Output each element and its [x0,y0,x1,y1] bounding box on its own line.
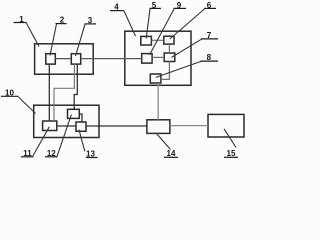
wire block6-block7 [168,44,170,53]
block 3 [71,54,80,64]
leader 10 [18,97,36,114]
block 11 [43,121,57,131]
leader 15 [224,129,236,148]
wire block9-block7 [152,56,164,58]
leader 8 [156,61,201,77]
block 9 [142,54,152,64]
wire block11-block13 [57,125,76,127]
leader 11 [33,127,50,156]
leader 3 [76,24,86,56]
leader 13 [79,130,85,152]
wire block13-block14 (through edge of block 10) [86,125,147,127]
leader 7 [172,39,202,57]
wire block3-block9 (through edges of blocks 1 and 4) [81,58,142,60]
block 6 [164,36,174,44]
wire block7-block8 (L shape) [161,62,170,80]
leader 14 [156,133,171,150]
leader 1 [26,23,39,47]
block 14 [147,120,170,134]
block 1 (outer box top-left) [35,44,94,74]
block 10 (outer box bottom-left) [34,105,99,137]
svg-text:15: 15 [227,149,236,158]
wire block3-block12 (small jog) [74,64,77,109]
wire block8-block14 [157,83,159,120]
block 12 [68,109,80,118]
svg-text:14: 14 [167,149,176,158]
block 7 [164,53,175,62]
wire block3-block11 (jog left) [54,64,74,121]
block 2 [46,54,56,64]
wire block14-block15 [170,125,208,127]
wire block2-block3 [55,58,71,60]
block 4 (outer box top-right) [125,31,191,85]
block 5 [141,36,152,45]
wire block2-block11 [48,64,50,121]
leader 2 [50,24,57,56]
block 8 [150,74,161,83]
wire block12-block13 (step) [79,114,82,122]
leader 12 [57,115,71,157]
leader 9 [150,9,175,55]
block 15 [208,114,244,137]
leader 4 [124,11,136,36]
wire block5-block6 [151,39,163,41]
leader 5 [146,9,150,39]
leader 6 [170,9,205,39]
block 13 [76,122,86,131]
